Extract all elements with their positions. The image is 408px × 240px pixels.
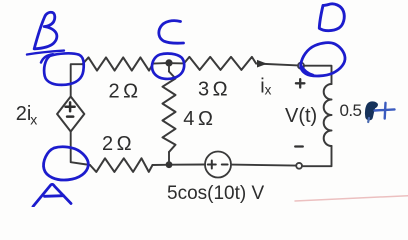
terminal node open circle bottom xyxy=(296,163,302,169)
minus sign inside diamond xyxy=(67,115,73,118)
current arrowhead ix xyxy=(257,60,267,68)
blue oval node D tail stroke xyxy=(302,66,314,75)
wire terminal D to top-right corner xyxy=(304,66,331,84)
wire node C to R2 xyxy=(172,62,184,64)
wire 4ohm bottom lead xyxy=(168,152,170,163)
plus sign inside voltage source xyxy=(208,164,216,166)
dependent source U1 diamond xyxy=(57,97,84,132)
wire R1 to node C xyxy=(153,62,166,65)
wire voltage source to bottom junction xyxy=(173,164,206,166)
resistor R4 4ohm vertical zigzag xyxy=(163,72,176,153)
blue circle around node C xyxy=(152,54,184,79)
minus sign V(t) polarity bottom xyxy=(295,145,303,147)
node C junction dot xyxy=(165,59,172,66)
wire junction to R3 xyxy=(153,164,166,166)
wire 4ohm branch top lead xyxy=(168,66,170,72)
plus sign inside diamond xyxy=(66,106,75,109)
plus sign V(t) polarity top xyxy=(296,82,305,84)
svg-text:2 Ω: 2 Ω xyxy=(102,133,132,155)
resistor R2 3ohm zigzag xyxy=(184,57,256,70)
wire top-left corner to R1 xyxy=(71,64,83,96)
blue circle around node B xyxy=(44,53,84,85)
handwritten letter B xyxy=(34,12,57,49)
handwritten A crossbar xyxy=(45,194,64,197)
svg-text:2i: 2i xyxy=(16,103,32,125)
blue circle around node A xyxy=(44,147,89,180)
wire R2 to terminal with current arrow xyxy=(256,64,298,66)
handwritten letter C xyxy=(159,21,184,44)
svg-text:5cos(10t) V: 5cos(10t) V xyxy=(167,183,264,204)
terminal node D open circle xyxy=(298,63,304,69)
svg-text:x: x xyxy=(30,112,37,128)
svg-text:4 Ω: 4 Ω xyxy=(183,108,213,130)
blue plus mark over 0.5 H xyxy=(375,109,395,110)
svg-text:3 Ω: 3 Ω xyxy=(198,78,228,100)
bottom junction dot xyxy=(166,161,173,168)
inductor L1 coil xyxy=(324,84,332,146)
svg-text:0.5: 0.5 xyxy=(340,101,362,120)
ink blob tail drip xyxy=(367,118,370,122)
blue circle around node B opening stroke xyxy=(41,54,53,62)
handwritten B underline dash xyxy=(27,51,64,55)
svg-text:V(t): V(t) xyxy=(285,105,317,127)
minus sign inside voltage source xyxy=(222,164,228,166)
svg-text:2 Ω: 2 Ω xyxy=(109,80,139,102)
blue oval around node D xyxy=(301,43,345,76)
voltage source VS circle xyxy=(205,152,231,178)
resistor R3 2ohm bottom zigzag xyxy=(90,158,153,172)
wire R3 to bottom-left corner xyxy=(71,132,90,166)
wire terminal to voltage source xyxy=(231,165,296,166)
svg-text:x: x xyxy=(265,83,272,98)
wire inductor to bottom-right corner xyxy=(302,146,331,166)
handwritten letter D xyxy=(319,4,344,31)
faint pink scan line bottom right xyxy=(295,196,408,201)
resistor R1 2ohm top zigzag xyxy=(83,57,154,70)
handwritten letter A xyxy=(33,184,71,206)
dark ink blob over 0.5 H unit xyxy=(366,102,378,119)
